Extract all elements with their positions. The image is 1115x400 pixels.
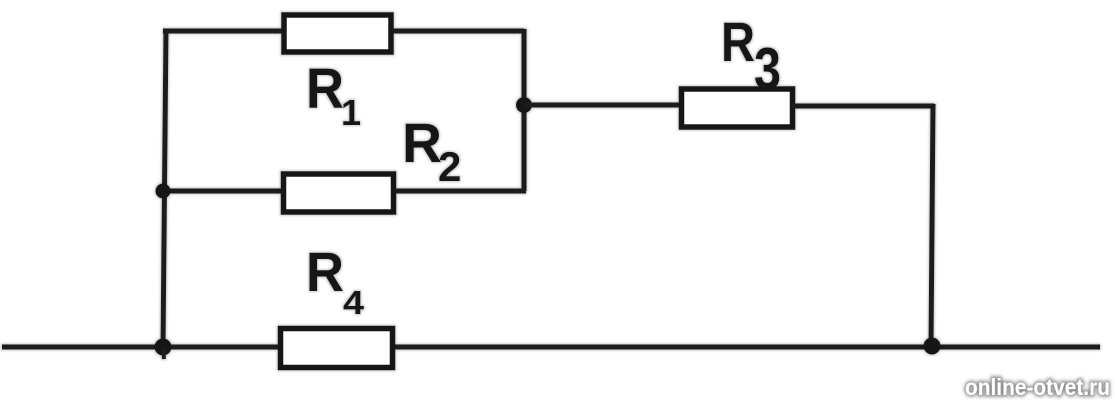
label R2 xyxy=(402,111,461,190)
resistor R1 xyxy=(284,15,391,52)
svg-text:online-otvet.ru: online-otvet.ru xyxy=(965,374,1110,400)
wire: parallel-loop right vertical xyxy=(522,29,527,191)
wire: left vertical bus xyxy=(163,29,166,347)
svg-text:2: 2 xyxy=(438,143,461,190)
svg-text:R: R xyxy=(402,111,442,174)
svg-text:4: 4 xyxy=(343,284,365,321)
junction node: bottom right xyxy=(924,338,941,355)
wire: middle segment left bus to R2 xyxy=(163,189,286,194)
svg-text:R: R xyxy=(306,57,344,121)
watermark online-otvet.ru xyxy=(965,374,1110,400)
svg-text:R: R xyxy=(721,10,755,73)
junction node: loop output xyxy=(516,97,532,113)
junction node: bottom left xyxy=(155,339,172,356)
wire: small stub below bottom-left junction xyxy=(163,347,164,359)
label R4 xyxy=(306,240,365,321)
wire: top segment R1 to right corner xyxy=(393,29,524,34)
wire: bottom main line xyxy=(2,345,1100,350)
label R1 xyxy=(306,57,361,133)
wire: R3 to right corner xyxy=(792,104,934,109)
wire: junction to R3 xyxy=(524,103,684,108)
wire: right vertical drop xyxy=(931,104,933,347)
junction node: left bus / middle branch xyxy=(156,184,171,199)
label R3 xyxy=(721,10,781,102)
svg-text:3: 3 xyxy=(754,36,781,102)
resistor R4 xyxy=(281,329,393,368)
svg-text:1: 1 xyxy=(341,92,361,133)
wire: middle segment R2 to right corner xyxy=(393,189,526,194)
svg-text:R: R xyxy=(306,240,344,303)
resistor R2 xyxy=(284,174,394,212)
resistor R3 xyxy=(682,89,793,127)
wire: top segment left corner to R1 xyxy=(163,29,286,34)
